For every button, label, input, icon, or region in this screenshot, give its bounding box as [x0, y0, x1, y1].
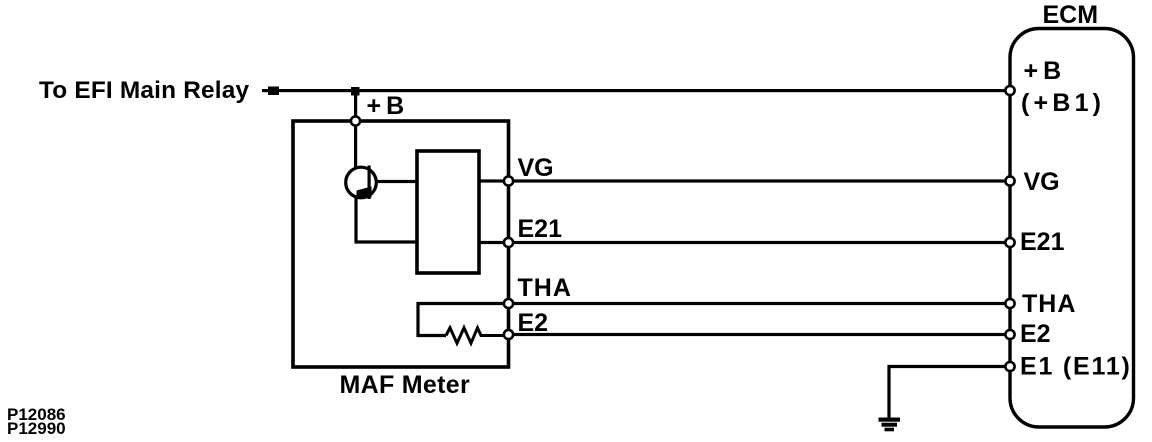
svg-text:P12990: P12990	[7, 419, 66, 438]
junction circle: VG at MAF box edge	[504, 176, 513, 185]
wire: element to module block (VG level)	[375, 180, 418, 183]
svg-text:VG: VG	[1024, 168, 1060, 196]
junction square: +B node	[351, 87, 360, 96]
wire: +B junction down to hot-wire element	[354, 126, 357, 169]
pin circle: ECM E2	[1005, 330, 1014, 339]
pin circle: ECM E21	[1005, 238, 1014, 247]
wire: E2 to ECM	[508, 333, 1008, 336]
svg-text:E21: E21	[1020, 228, 1065, 256]
svg-text:+B: +B	[367, 92, 410, 120]
svg-text:E2: E2	[518, 309, 549, 337]
junction circle: THA at MAF box edge	[504, 299, 513, 308]
svg-text:To EFI Main Relay: To EFI Main Relay	[39, 77, 250, 104]
wire: element bottom down and right to module block (E21 level)	[355, 197, 419, 242]
svg-text:+B: +B	[1024, 57, 1067, 85]
wire: E21 to ECM	[479, 241, 1008, 244]
wire: THA internal loop	[418, 304, 508, 336]
svg-text:E1 (E11): E1 (E11)	[1020, 353, 1132, 381]
svg-text:(+B1): (+B1)	[1021, 89, 1105, 117]
svg-text:E21: E21	[518, 215, 563, 243]
svg-text:ECM: ECM	[1043, 1, 1099, 29]
ground symbol	[879, 418, 901, 432]
resistor (THA-E2 thermistor)	[446, 328, 508, 343]
svg-text:E2: E2	[1020, 320, 1051, 348]
pin circle: ECM +B	[1005, 86, 1014, 95]
pin circle: ECM THA	[1005, 299, 1014, 308]
connector square on relay wire	[268, 87, 279, 96]
svg-text:VG: VG	[518, 154, 554, 182]
wire: E1 from ground up and right to ECM	[889, 367, 1008, 419]
wire: +B node down to MAF box top	[354, 91, 357, 118]
wire: VG to ECM	[479, 179, 1008, 182]
hot-wire sensor element	[346, 166, 377, 200]
svg-text:THA: THA	[518, 274, 572, 302]
MAF Meter outer box	[293, 121, 509, 367]
svg-text:THA: THA	[1022, 290, 1076, 318]
MAF module block	[417, 151, 479, 273]
junction circle: E2 at MAF box edge	[504, 330, 513, 339]
ECM body	[1010, 29, 1134, 428]
pin circle: ECM VG	[1005, 176, 1014, 185]
wire: THA to ECM	[508, 302, 1008, 305]
junction circle: +B on MAF box top edge	[351, 116, 360, 125]
junction circle: E21 at MAF box edge	[504, 238, 513, 247]
pin circle: ECM E1	[1005, 362, 1014, 371]
wire: EFI main relay line to ECM +B pin	[262, 89, 1007, 92]
svg-text:MAF Meter: MAF Meter	[340, 371, 470, 399]
